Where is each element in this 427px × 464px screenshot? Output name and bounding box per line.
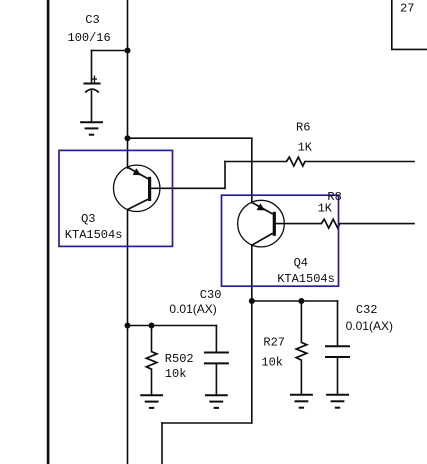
svg-text:0.01(AX): 0.01(AX) <box>346 319 393 333</box>
svg-text:0.01(AX): 0.01(AX) <box>169 302 216 316</box>
svg-text:KTA1504s: KTA1504s <box>277 272 335 286</box>
svg-text:Q4: Q4 <box>294 256 308 270</box>
svg-text:R502: R502 <box>165 352 194 366</box>
svg-text:1K: 1K <box>298 141 313 155</box>
svg-text:1K: 1K <box>318 202 333 216</box>
svg-text:C32: C32 <box>356 303 378 317</box>
svg-text:10k: 10k <box>261 356 283 370</box>
svg-text:10k: 10k <box>165 367 187 381</box>
svg-text:C30: C30 <box>200 288 222 302</box>
svg-text:KTA1504s: KTA1504s <box>65 228 123 242</box>
svg-text:R27: R27 <box>263 335 285 349</box>
svg-text:100/16: 100/16 <box>68 31 111 45</box>
svg-text:R6: R6 <box>296 121 310 135</box>
svg-text:27: 27 <box>400 2 414 16</box>
svg-text:Q3: Q3 <box>81 212 95 226</box>
svg-text:C3: C3 <box>85 13 99 27</box>
